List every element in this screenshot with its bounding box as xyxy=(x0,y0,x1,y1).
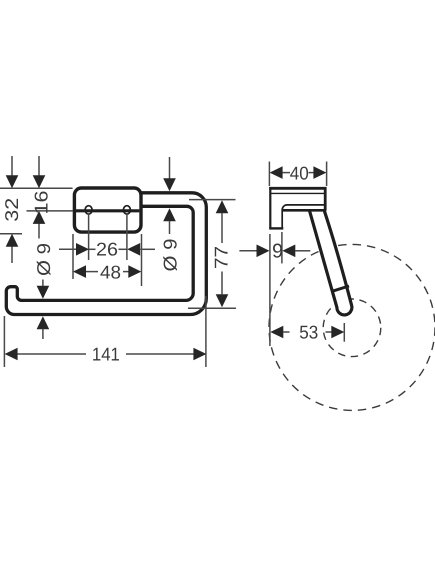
dim 26 line xyxy=(59,248,77,250)
svg-text:48: 48 xyxy=(100,262,121,283)
dim 141 extension lines xyxy=(3,316,5,367)
dim 32 bottom arrow xyxy=(11,246,13,263)
dim 141 arrows xyxy=(5,348,18,361)
side view: arm (white fill covers dashed circles) xyxy=(310,210,352,315)
svg-text:40: 40 xyxy=(290,163,309,184)
dim 40 extension lines xyxy=(268,162,270,187)
dim 53 line and arrows xyxy=(270,326,283,339)
dim dia9 left arrows xyxy=(42,280,44,287)
side view: wall plate bottom edge xyxy=(269,227,283,229)
dim 77 arrows xyxy=(216,200,229,213)
dim 26 arrows xyxy=(76,243,89,256)
svg-text:Ø 9: Ø 9 xyxy=(33,243,54,276)
side view: body underside with fillet to plate front xyxy=(282,205,324,228)
front view: right keyhole hook xyxy=(123,206,130,214)
dashed circle: roll core xyxy=(323,299,381,357)
front view: plate dividing line xyxy=(76,209,139,212)
front view: roll holder rod xyxy=(6,193,206,315)
dim extension line: plate top xyxy=(0,187,73,189)
dim 9 arrows xyxy=(239,250,257,252)
dim 77 extension lines xyxy=(189,199,236,201)
dim 53 right tick xyxy=(343,323,345,342)
svg-text:9: 9 xyxy=(272,240,283,262)
dim 9 wall extension line xyxy=(269,234,271,346)
side view: arm end-cap seam xyxy=(334,286,349,291)
dim 40 line and arrows xyxy=(282,172,290,174)
side view: cover seam line xyxy=(271,192,325,194)
side view: body bottom edge xyxy=(283,209,326,212)
dim 48 extension lines xyxy=(72,234,74,279)
svg-text:53: 53 xyxy=(299,321,318,342)
svg-text:141: 141 xyxy=(92,343,120,364)
side view: body front (right) edge xyxy=(324,187,327,210)
dim 48 arrows xyxy=(73,265,86,278)
dim 16 top arrow xyxy=(38,156,40,176)
svg-text:77: 77 xyxy=(211,246,232,269)
dim 32 top arrow xyxy=(11,156,13,176)
dashed circle: toilet roll outer xyxy=(269,244,435,410)
dim extension line: plate divide xyxy=(27,210,74,212)
front view: wall plate xyxy=(74,188,141,232)
dim 16 bottom arrow xyxy=(38,223,40,238)
svg-text:16: 16 xyxy=(31,191,52,215)
side view: top bar of wall bracket xyxy=(269,187,326,190)
dim 141 line xyxy=(17,353,86,355)
side view: arm outline xyxy=(310,211,352,315)
svg-text:Ø 9: Ø 9 xyxy=(159,239,180,272)
dim 9 plate front extension line xyxy=(281,232,283,263)
side view: wall plate back edge xyxy=(269,187,271,228)
dim extension line: plate bottom xyxy=(0,233,22,235)
dim 48 line xyxy=(86,271,99,273)
dim dia9 right arrows xyxy=(169,157,171,179)
dim 26 extension lines xyxy=(88,214,90,260)
front view: left keyhole hook xyxy=(85,206,92,214)
dim 53 label xyxy=(298,324,319,339)
svg-text:26: 26 xyxy=(96,239,118,260)
svg-text:32: 32 xyxy=(1,198,22,222)
